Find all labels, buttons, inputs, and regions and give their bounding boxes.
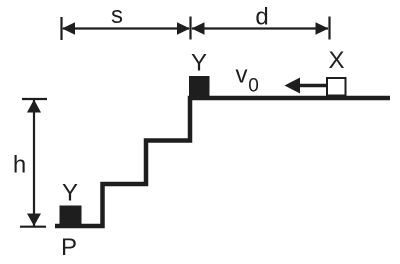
block Y top — [189, 76, 210, 97]
dimension h up arrowhead — [27, 100, 41, 113]
dimension s right arrowhead — [177, 22, 190, 35]
dimension s left arrowhead — [62, 22, 75, 35]
block X — [327, 78, 346, 96]
velocity arrowhead — [285, 78, 301, 94]
svg-text:0: 0 — [248, 76, 259, 97]
dimension h bottom tick — [20, 226, 46, 228]
dimension d left arrowhead — [192, 22, 205, 35]
svg-text:Y: Y — [62, 180, 78, 207]
dimension d right tick — [328, 17, 330, 40]
svg-text:X: X — [328, 47, 344, 74]
svg-text:s: s — [111, 2, 123, 29]
dimension d right arrowhead — [316, 22, 329, 35]
dimension s line — [63, 27, 189, 29]
block Y bottom on step P — [60, 206, 82, 225]
svg-text:Y: Y — [191, 50, 207, 77]
dimension h down arrowhead — [27, 214, 41, 227]
dimension h line — [33, 100, 35, 226]
svg-text:v: v — [236, 62, 248, 89]
svg-text:d: d — [255, 4, 268, 31]
dimension s/d middle tick — [189, 17, 191, 40]
staircase outline — [55, 98, 390, 226]
dimension d line — [192, 27, 328, 29]
velocity arrow shaft — [299, 84, 327, 88]
svg-text:h: h — [13, 152, 26, 179]
dimension h top tick — [22, 98, 47, 100]
svg-text:P: P — [61, 234, 77, 261]
dimension s left tick — [60, 17, 62, 40]
